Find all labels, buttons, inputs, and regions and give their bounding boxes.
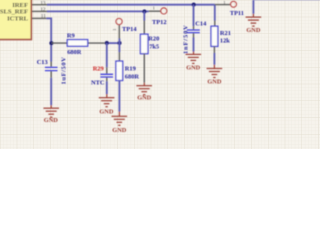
svg-text:R21: R21 [220, 30, 231, 37]
svg-text:1nF/50V: 1nF/50V [182, 24, 189, 54]
node junction R19/TP14 tap [118, 41, 122, 45]
svg-text:7k5: 7k5 [149, 44, 159, 51]
resistor R21 [211, 21, 218, 69]
ground GND for R21 [207, 69, 223, 78]
node junction NTC tap [105, 41, 109, 45]
test point TP14 [112, 18, 122, 38]
capacitor C14 [187, 5, 200, 55]
svg-text:SLS_REF: SLS_REF [0, 8, 28, 15]
svg-text:12: 12 [40, 7, 46, 13]
wire SLS_REF net horizontal [47, 10, 149, 12]
wire ICTRL net elbow down [46, 18, 51, 61]
ground GND for R20 [136, 86, 152, 95]
svg-text:C14: C14 [195, 20, 207, 27]
resistor R20 [140, 21, 148, 86]
ground GND for C14 [186, 54, 202, 63]
svg-text:GND: GND [207, 79, 221, 86]
pin 12 stub [32, 10, 47, 12]
resistor R19 [116, 39, 123, 117]
node junction R20 tap [142, 10, 146, 14]
wire along top edge (clipped) [253, 0, 320, 1]
svg-text:680R: 680R [67, 49, 82, 56]
svg-text:GND: GND [246, 27, 260, 34]
ground GND for C13 [43, 108, 59, 117]
svg-text:R20: R20 [148, 36, 159, 43]
svg-text:13: 13 [40, 0, 46, 6]
svg-text:GND: GND [112, 127, 126, 134]
svg-text:R29: R29 [93, 65, 104, 72]
wire IREF net corner down to R21 [214, 5, 216, 21]
test point TP12 [149, 5, 167, 14]
test point TP11 [215, 0, 237, 7]
pin 13 stub [32, 4, 47, 6]
pin 11 stub [32, 17, 46, 19]
svg-text:TP14: TP14 [122, 26, 137, 33]
svg-text:1uF/50V: 1uF/50V [61, 57, 68, 85]
svg-text:GND: GND [44, 117, 58, 124]
svg-text:NTC: NTC [91, 79, 105, 86]
capacitor C13 [45, 62, 58, 109]
wire IREF net horizontal [47, 4, 215, 6]
svg-text:R9: R9 [67, 32, 75, 39]
svg-text:TP11: TP11 [230, 10, 244, 17]
svg-text:TP12: TP12 [152, 19, 167, 26]
svg-text:680R: 680R [125, 74, 140, 81]
wire R9 output row [105, 42, 120, 44]
ground GND for R19 [112, 116, 128, 125]
svg-text:GND: GND [137, 95, 151, 102]
svg-text:R19: R19 [125, 65, 136, 72]
wire from top edge down to right GND [252, 0, 254, 14]
thermistor R29 NTC (cap-style symbol) [100, 43, 113, 98]
node junction ICTRL / R9 / C13 [49, 41, 53, 45]
svg-text:11: 11 [41, 14, 46, 20]
svg-text:ICTRL: ICTRL [7, 16, 28, 23]
node junction C14 tap [192, 3, 196, 7]
wire R20 branch [143, 12, 145, 21]
ground GND for NTC [99, 98, 115, 107]
svg-text:C13: C13 [37, 59, 48, 66]
IC block (partial, top-left) [0, 0, 31, 40]
svg-text:12k: 12k [220, 37, 230, 44]
resistor R9 [51, 40, 104, 47]
svg-text:GND: GND [186, 65, 200, 72]
ground GND at top right [246, 14, 262, 26]
svg-text:GND: GND [99, 108, 113, 115]
